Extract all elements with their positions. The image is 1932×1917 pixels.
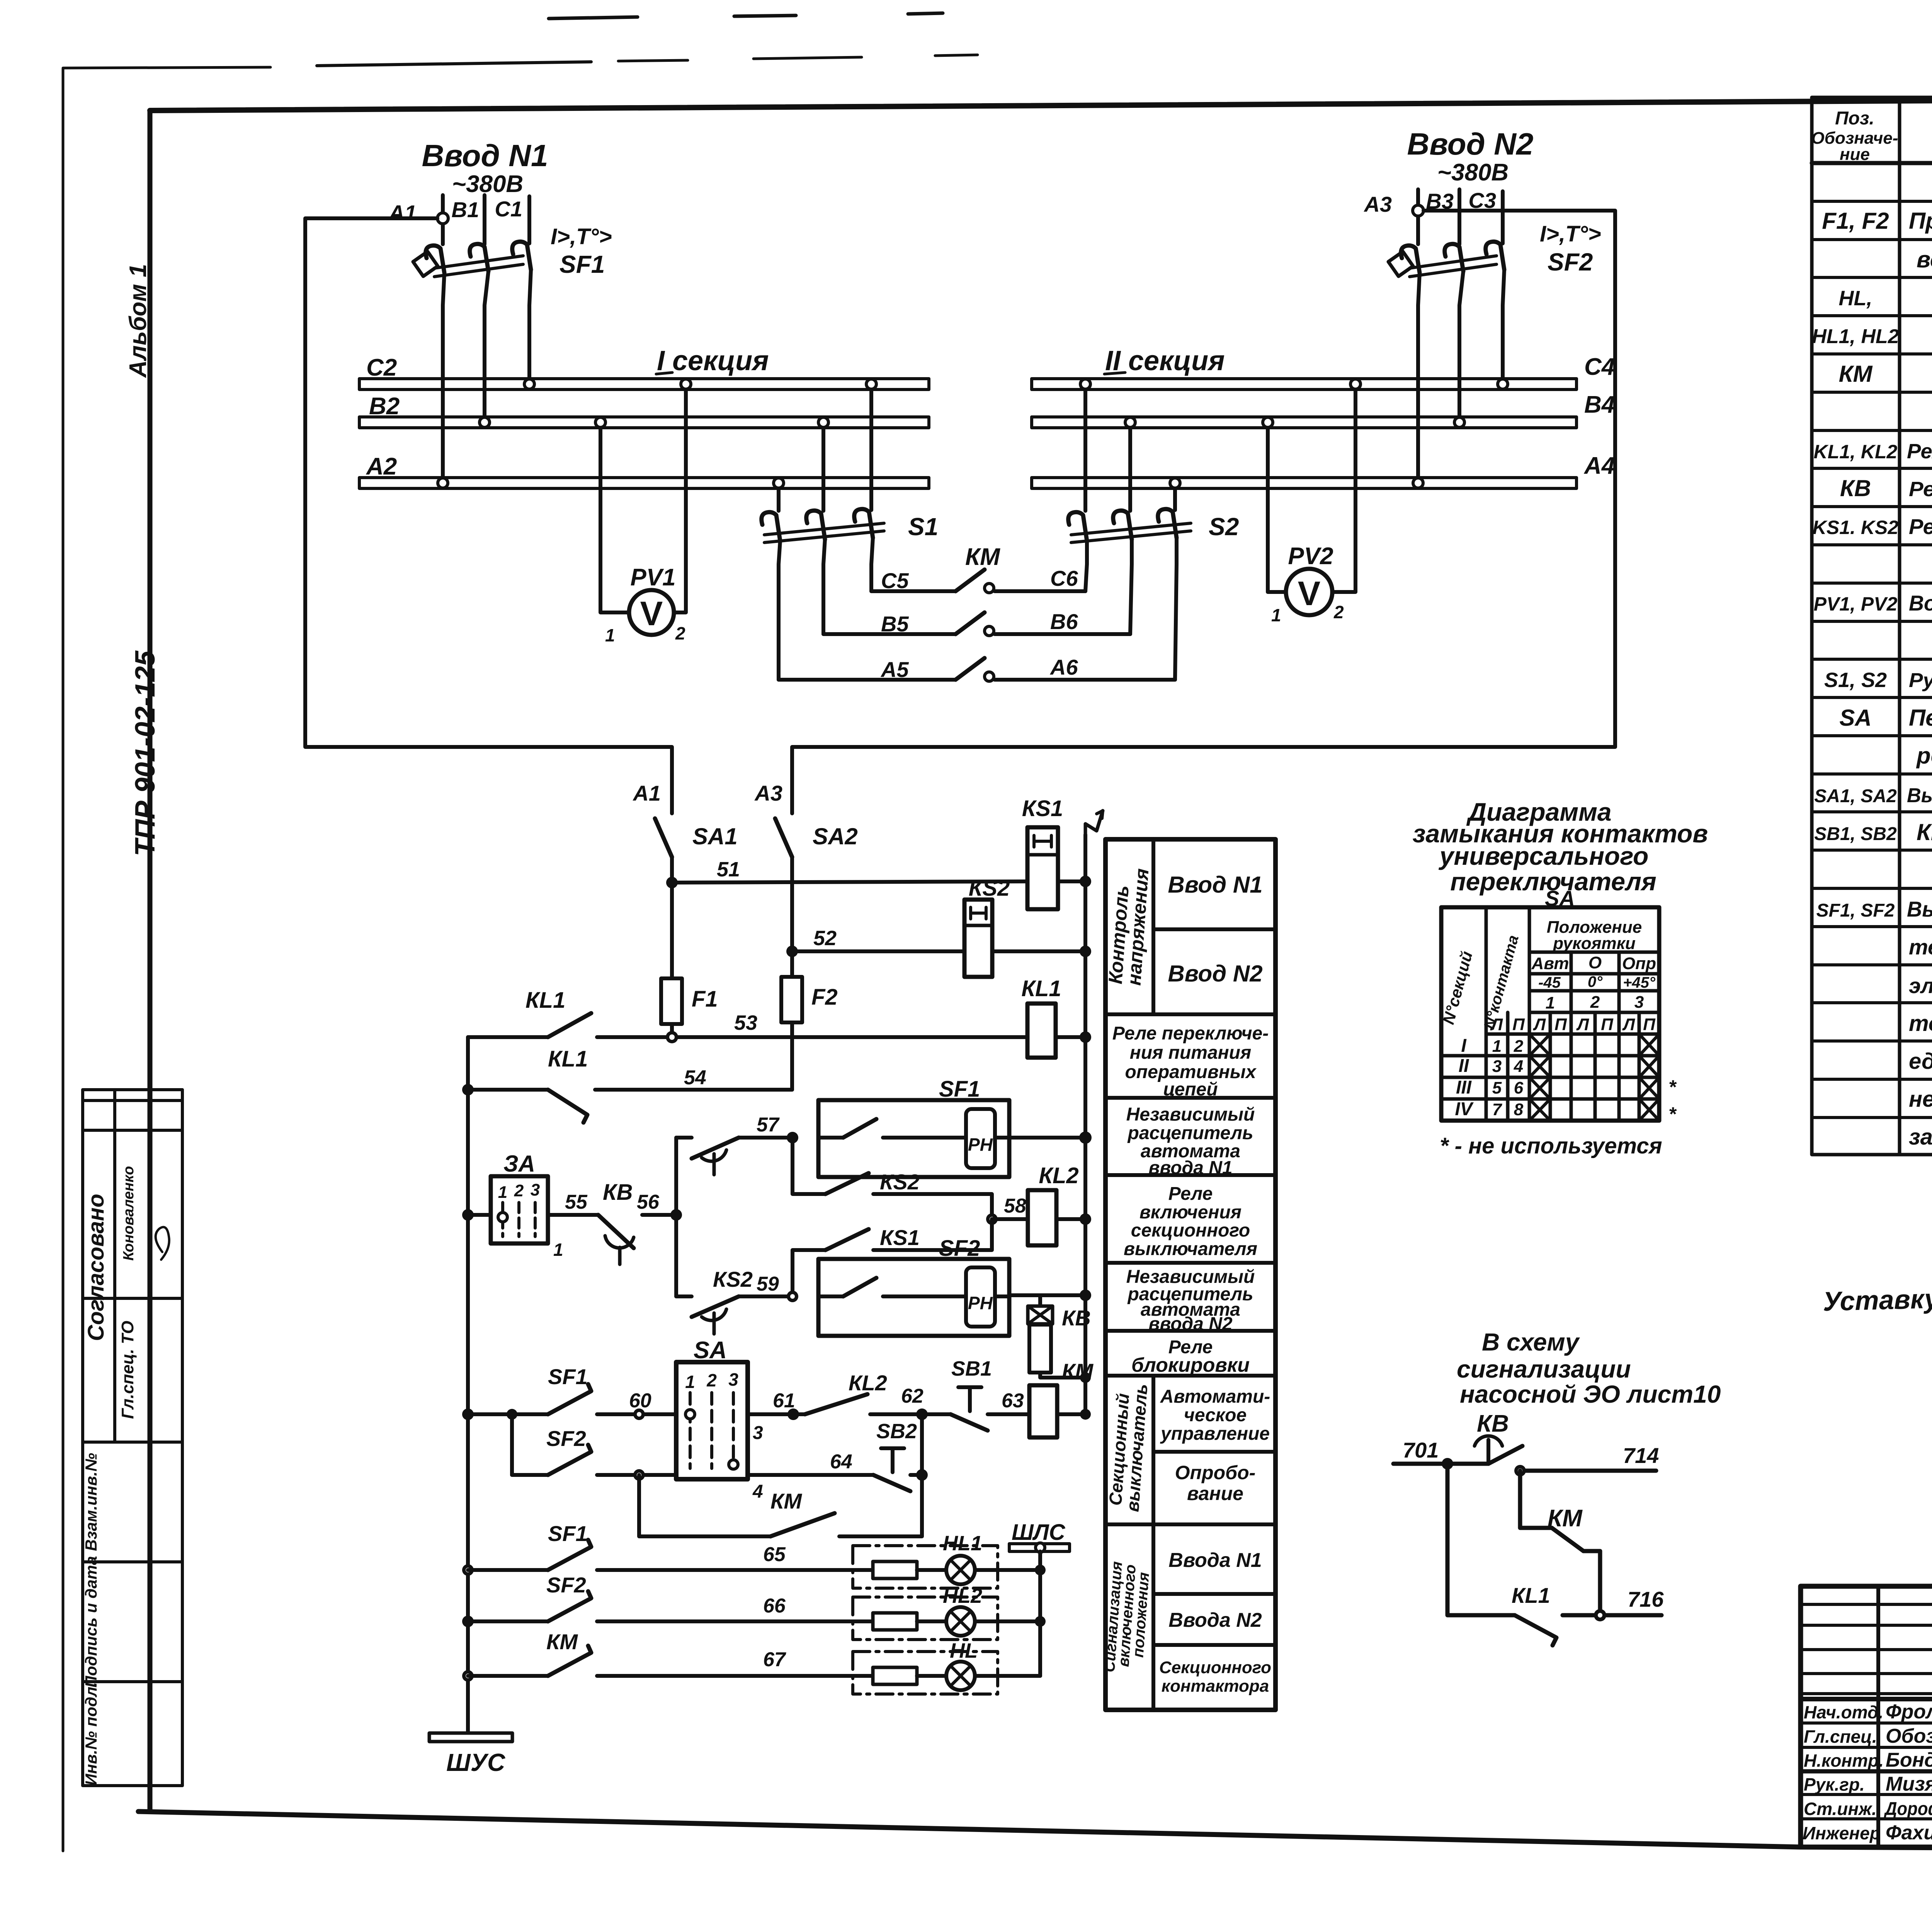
svg-text:единицы по черт. N3 приложе: единицы по черт. N3 приложения N6 к ТУ, (1909, 1049, 1932, 1074)
svg-text:56: 56 (637, 1191, 660, 1213)
node 51 (666, 877, 678, 888)
svg-text:РН: РН (968, 1135, 993, 1155)
verticals (1485, 907, 1488, 1121)
svg-text:701: 701 (1403, 1438, 1439, 1462)
svg-text:61: 61 (773, 1390, 795, 1412)
svg-text:цепей: цепей (1163, 1079, 1218, 1100)
svg-text:Альбом 1: Альбом 1 (125, 264, 151, 378)
svg-text:П: П (1643, 1015, 1656, 1034)
svg-text:А3: А3 (1363, 192, 1392, 216)
left feed rail (466, 1037, 470, 1733)
node 57 (787, 1132, 798, 1143)
svg-text:I секция: I секция (657, 345, 769, 376)
svg-text:* - не используется: * - не используется (1440, 1133, 1662, 1158)
svg-text:S1, S2: S1, S2 (1824, 668, 1887, 692)
node 59 (787, 1291, 798, 1302)
svg-text:Ввод N1: Ввод N1 (1168, 872, 1262, 898)
svg-text:зажимные колодки N16 ТУ 16.: зажимные колодки N16 ТУ 16.522.028 -74 (1909, 1124, 1932, 1150)
svg-text:КМ: КМ (965, 544, 1000, 570)
svg-text:С6: С6 (1050, 566, 1078, 590)
bus taps section I (524, 379, 534, 389)
svg-text:ческое: ческое (1184, 1405, 1247, 1425)
wire 714 (1520, 1469, 1656, 1473)
svg-text:Дорофеев: Дорофеев (1883, 1799, 1932, 1819)
svg-text:3: 3 (531, 1180, 540, 1199)
X marks (1529, 1034, 1659, 1121)
rail 56 (674, 1138, 678, 1296)
svg-text:8: 8 (1514, 1100, 1524, 1119)
svg-text:Кнопка КЕ011УЗ , исп.2 , штиф: Кнопка КЕ011УЗ , исп.2 , штифт красный (1917, 819, 1932, 845)
svg-text:расцепитель: расцепитель (1127, 1123, 1253, 1143)
svg-text:КL1: КL1 (1021, 976, 1061, 1001)
svg-text:Реле ВЛ-26У4, 220В, 50Гц. ТУ: Реле ВЛ-26У4, 220В, 50Гц. ТУ 16.523. 528… (1909, 478, 1932, 501)
svg-text:Рук.гр.: Рук.гр. (1804, 1774, 1865, 1795)
svg-text:III: III (1456, 1077, 1472, 1098)
svg-text:I˃,T°˃: I˃,T°˃ (1540, 221, 1601, 247)
svg-text:КS1: КS1 (1022, 796, 1063, 821)
bus B4 section II (1032, 417, 1577, 428)
svg-text:55: 55 (565, 1191, 588, 1213)
svg-text:С2: С2 (366, 354, 397, 381)
svg-text:насосной ЭО лист10: насосной ЭО лист10 (1460, 1380, 1721, 1408)
svg-text:6: 6 (1514, 1078, 1524, 1097)
svg-text:2: 2 (675, 623, 685, 643)
svg-text:В6: В6 (1050, 609, 1078, 634)
svg-text:секционного: секционного (1131, 1220, 1250, 1241)
node 58 (986, 1213, 998, 1225)
svg-text:универсального: универсального (1439, 842, 1649, 870)
signal lamp row 67 (462, 1670, 474, 1682)
svg-text:Коноваленко: Коноваленко (121, 1166, 137, 1260)
KM self-hold bypass (639, 1475, 770, 1536)
svg-text:ШЛС: ШЛС (1012, 1520, 1066, 1545)
svg-text:Независимый: Независимый (1126, 1104, 1255, 1125)
svg-text:КМ: КМ (546, 1630, 578, 1654)
phase B3 wire (1458, 189, 1461, 244)
row 64: testing (510, 1414, 514, 1475)
node 52 (786, 946, 798, 957)
svg-text:ние: ние (1840, 145, 1870, 164)
svg-text:Ввод N2: Ввод N2 (1407, 127, 1534, 161)
svg-text:П: П (1554, 1015, 1567, 1034)
svg-text:63: 63 (1002, 1390, 1024, 1412)
svg-text:66: 66 (763, 1595, 786, 1617)
phase A3 wire (1416, 189, 1420, 244)
svg-text:П: П (1601, 1015, 1614, 1034)
voltmeter PV1 (600, 390, 686, 645)
svg-text:Ст.инж.: Ст.инж. (1804, 1799, 1877, 1819)
branch 57 to KS2 contact (793, 1138, 825, 1194)
wire 52 (792, 949, 964, 953)
wire A3 to right loop (792, 211, 1615, 813)
svg-text:Переключатель УП5313 -С86, р: Переключатель УП5313 -С86, рукоятка (1909, 705, 1932, 731)
svg-text:PV1, PV2: PV1, PV2 (1814, 593, 1898, 615)
node A3 terminal (1413, 205, 1423, 216)
breaker SF2 (1388, 242, 1504, 277)
svg-text:Поз.: Поз. (1835, 108, 1874, 129)
svg-text:IV: IV (1455, 1099, 1474, 1119)
A5/A6 row (779, 678, 956, 682)
bus C2 section I (359, 379, 929, 390)
svg-text:КL1: КL1 (548, 1046, 588, 1072)
contact KS2 time-delay (row 59) (676, 1294, 692, 1298)
svg-text:57: 57 (757, 1114, 780, 1136)
node 61 (787, 1408, 799, 1420)
box SF2 with PH relay (row 59) (818, 1236, 1009, 1336)
svg-text:~380В: ~380В (452, 171, 523, 197)
lamp HL2 (943, 1584, 982, 1636)
svg-text:ШУС: ШУС (446, 1749, 505, 1776)
svg-text:64: 64 (830, 1451, 852, 1473)
svg-text:электромагнитный расцепитель: электромагнитный расцепитель и уставка (1909, 973, 1932, 998)
node 56 (670, 1209, 682, 1221)
svg-text:V: V (1298, 574, 1321, 612)
svg-text:Ввода N2: Ввода N2 (1168, 1609, 1262, 1631)
svg-text:2: 2 (1514, 1037, 1524, 1056)
box SF1 with PH relay (row 57) (818, 1077, 1009, 1177)
svg-text:О: О (1588, 953, 1602, 972)
svg-text:HL1, HL2: HL1, HL2 (1812, 325, 1899, 348)
svg-text:SF2: SF2 (546, 1426, 586, 1451)
svg-text:А6: А6 (1049, 655, 1078, 679)
svg-text:SA: SA (1839, 705, 1871, 731)
svg-text:А1: А1 (388, 201, 417, 225)
svg-text:54: 54 (684, 1067, 706, 1089)
contact KS1 time-delay (row 57) (676, 1136, 692, 1140)
svg-text:Л: Л (1576, 1015, 1589, 1034)
node 54 (462, 1084, 474, 1095)
svg-text:Мизяк: Мизяк (1886, 1773, 1932, 1795)
svg-text:53: 53 (734, 1011, 757, 1034)
svg-text:С5: С5 (881, 568, 909, 593)
svg-text:Выключатель А372 6ФУЗ , 380В: Выключатель А372 6ФУЗ , 380В , 50 Гц,250… (1907, 897, 1932, 921)
wire A1 to left loop (305, 218, 672, 813)
svg-text:Предохранитель ПРС-20УЗ-П, пл: Предохранитель ПРС-20УЗ-П, плавкая (1909, 208, 1932, 234)
svg-text:-45: -45 (1538, 974, 1561, 991)
svg-text:PV2: PV2 (1288, 543, 1333, 570)
svg-text:V: V (640, 594, 663, 633)
svg-text:1: 1 (1492, 1037, 1502, 1056)
button SB1 (951, 1357, 992, 1431)
svg-text:блокировки: блокировки (1131, 1354, 1250, 1376)
node 53 (666, 1031, 678, 1043)
svg-text:60: 60 (629, 1390, 651, 1412)
voltmeter PV2 (1268, 390, 1355, 625)
svg-text:ЗА: ЗА (503, 1151, 535, 1177)
svg-text:3: 3 (1634, 993, 1644, 1012)
svg-text:Бондарь: Бондарь (1886, 1749, 1932, 1771)
svg-text:А4: А4 (1583, 452, 1615, 479)
svg-text:КМ: КМ (770, 1489, 802, 1513)
contact KB time-delay (598, 1180, 634, 1264)
svg-text:SF1: SF1 (548, 1364, 588, 1389)
svg-text:Согласовано: Согласовано (83, 1194, 109, 1341)
svg-text:Ввода N1: Ввода N1 (1168, 1549, 1262, 1572)
svg-text:НL1: НL1 (943, 1532, 982, 1555)
svg-text:5: 5 (1492, 1078, 1502, 1097)
switch SA2 (775, 818, 792, 857)
relay coil KS1 (1022, 796, 1063, 909)
svg-text:Опробо-: Опробо- (1175, 1462, 1256, 1483)
selector ZA (1 2 3) (462, 1209, 474, 1221)
svg-text:Фролов: Фролов (1886, 1701, 1932, 1723)
svg-text:7: 7 (1492, 1100, 1503, 1119)
svg-text:SF2: SF2 (546, 1573, 586, 1597)
svg-text:С1: С1 (495, 197, 522, 221)
svg-text:1: 1 (498, 1183, 507, 1202)
function annotation table (1101, 839, 1276, 1710)
B5/B6 row (823, 632, 956, 636)
relay coil KB (1028, 1295, 1091, 1383)
svg-text:Нач.отд.: Нач.отд. (1804, 1702, 1883, 1722)
svg-text:Реле: Реле (1168, 1184, 1213, 1204)
svg-text:Подпись и дата: Подпись и дата (82, 1556, 100, 1687)
contact KL2 (805, 1394, 867, 1414)
svg-text:SF1, SF2: SF1, SF2 (1816, 900, 1895, 921)
svg-text:сигнализации: сигнализации (1457, 1355, 1631, 1383)
phase A1 wire (441, 195, 445, 244)
left margin stamp (82, 1090, 182, 1786)
svg-text:SA1, SA2: SA1, SA2 (1814, 786, 1897, 806)
svg-text:Реле РПУ-4-368, 220В, 50 Гц ,: Реле РПУ-4-368, 220В, 50 Гц , ТУ16.523.5… (1907, 440, 1932, 463)
note to signalling circuit (1393, 1328, 1721, 1645)
svg-text:3: 3 (1492, 1057, 1502, 1076)
svg-text:В4: В4 (1584, 391, 1615, 418)
svg-text:1: 1 (1271, 605, 1281, 625)
svg-text:револьверного типа , ТУ 16.524: револьверного типа , ТУ 16.524. 074-75 (1916, 743, 1932, 769)
svg-text:0°: 0° (1588, 973, 1603, 990)
svg-text:вание: вание (1187, 1483, 1243, 1504)
svg-text:В2: В2 (369, 393, 400, 420)
svg-text:4: 4 (1514, 1057, 1523, 1076)
svg-text:*: * (1668, 1103, 1677, 1125)
svg-text:КS2: КS2 (880, 1170, 920, 1194)
svg-text:вставка ПВД 1-16УЗ , ТУ 16.52: вставка ПВД 1-16УЗ , ТУ 16.522.011-74 (1917, 247, 1932, 272)
breaker SF1 (413, 242, 531, 277)
svg-text:КS2: КS2 (713, 1267, 753, 1291)
relay coil KL2 (992, 1217, 1028, 1221)
bus C4 section II (1032, 379, 1577, 390)
svg-text:2: 2 (1590, 993, 1600, 1012)
wires SF1 to buses (443, 273, 444, 478)
svg-text:4: 4 (752, 1482, 763, 1502)
svg-text:В5: В5 (881, 612, 909, 636)
svg-text:67: 67 (763, 1648, 786, 1671)
svg-text:Л: Л (1533, 1015, 1546, 1034)
svg-text:59: 59 (757, 1273, 779, 1295)
signal lamp row 66 (462, 1616, 474, 1627)
bus taps section II (1080, 379, 1090, 389)
svg-text:контактора: контактора (1162, 1677, 1269, 1696)
svg-text:SF2: SF2 (1548, 248, 1593, 276)
svg-text:F1, F2: F1, F2 (1822, 208, 1889, 234)
horizontals (1529, 951, 1659, 954)
svg-text:Обозная: Обозная (1886, 1725, 1932, 1747)
node 62 (916, 1408, 928, 1420)
C5/C6 row (871, 589, 956, 593)
svg-text:управление: управление (1160, 1424, 1270, 1444)
svg-text:Инженер: Инженер (1803, 1823, 1881, 1843)
resistor (lamp row 67) (873, 1667, 917, 1684)
svg-text:SF1: SF1 (560, 250, 605, 278)
svg-text:КL1: КL1 (526, 988, 565, 1013)
selector SA box (676, 1337, 748, 1479)
wire 51 (672, 881, 1027, 883)
svg-text:58: 58 (1004, 1195, 1026, 1217)
input N2 label (1363, 127, 1601, 276)
svg-text:PV1: PV1 (630, 564, 675, 591)
contact SF1 (548, 1384, 591, 1414)
wire (670, 857, 674, 883)
switch S2 (1068, 509, 1239, 543)
resistor (lamp row 66) (873, 1613, 917, 1630)
svg-text:S1: S1 (908, 513, 938, 541)
contact SF2 (548, 1445, 591, 1475)
svg-text:независимый расцепитель 220В: независимый расцепитель 220В, 50 Гц, (1909, 1087, 1932, 1112)
node 60 (633, 1408, 645, 1420)
svg-text:1: 1 (685, 1372, 695, 1392)
svg-text:714: 714 (1623, 1443, 1659, 1468)
svg-text:рукоятки: рукоятки (1553, 934, 1636, 953)
svg-text:В1: В1 (451, 197, 479, 222)
SA contact closure diagram (1413, 798, 1708, 1158)
svg-text:В схему: В схему (1482, 1328, 1580, 1356)
lamp HL1 (943, 1532, 982, 1584)
svg-text:КL1: КL1 (1512, 1583, 1550, 1607)
svg-text:А1: А1 (632, 781, 661, 805)
svg-text:ввода N2: ввода N2 (1148, 1314, 1232, 1334)
svg-text:Ввод N1: Ввод N1 (422, 138, 548, 173)
svg-text:Реле переключе-: Реле переключе- (1112, 1023, 1269, 1044)
relay coil KS2 (964, 876, 1010, 977)
svg-text:ТПР 901-02-125: ТПР 901-02-125 (130, 650, 161, 856)
svg-text:F1: F1 (692, 987, 718, 1012)
svg-text:SА: SА (694, 1337, 727, 1364)
bus SHUS (ground bar) (429, 1733, 512, 1776)
svg-text:Автомати-: Автомати- (1160, 1386, 1270, 1407)
fuse F1 (670, 883, 674, 978)
svg-text:*: * (1668, 1076, 1677, 1098)
svg-text:А2: А2 (366, 453, 397, 480)
wire 53 with contact KL1 (468, 1035, 548, 1039)
wire 716 with contact KL1 (1447, 1464, 1515, 1615)
svg-text:Инв.№ подл.: Инв.№ подл. (82, 1682, 100, 1785)
fuse F2 (790, 951, 794, 977)
svg-text:НL: НL (950, 1639, 978, 1662)
svg-text:SF1: SF1 (939, 1077, 980, 1102)
svg-text:S2: S2 (1209, 513, 1239, 541)
svg-text:51: 51 (717, 858, 740, 881)
lamp HL (946, 1639, 978, 1690)
svg-text:+45°: +45° (1623, 974, 1656, 991)
bus SHLS (1009, 1520, 1070, 1676)
svg-text:~380В: ~380В (1437, 159, 1509, 186)
button SB2 (873, 1420, 917, 1491)
svg-text:С4: С4 (1584, 354, 1615, 380)
svg-text:Н.контр.: Н.контр. (1804, 1750, 1884, 1771)
left margin vertical texts (125, 264, 161, 856)
svg-text:I: I (1461, 1036, 1467, 1056)
svg-text:Взам.инв.№: Взам.инв.№ (82, 1453, 100, 1551)
svg-text:Фахина: Фахина (1886, 1822, 1932, 1844)
svg-text:Опр: Опр (1622, 954, 1656, 973)
svg-text:F2: F2 (811, 985, 838, 1010)
svg-text:HL,: HL, (1839, 287, 1872, 310)
switch S1 (762, 390, 939, 543)
svg-text:А3: А3 (754, 781, 782, 805)
svg-text:КВ: КВ (603, 1180, 633, 1205)
svg-text:Гл.спец.: Гл.спец. (1804, 1726, 1877, 1747)
switch SA1 (655, 818, 672, 857)
svg-text:SF2: SF2 (939, 1236, 980, 1261)
svg-text:ния питания: ния питания (1130, 1043, 1252, 1063)
svg-text:2: 2 (514, 1181, 524, 1200)
svg-text:термобиметаллический расцепите: термобиметаллический расцепитель 230А (1909, 935, 1932, 959)
svg-text:Авт: Авт (1531, 954, 1569, 973)
svg-text:SВ1: SВ1 (951, 1357, 992, 1380)
svg-text:Гл.спец. ТО: Гл.спец. ТО (118, 1321, 137, 1419)
svg-text:2: 2 (1333, 602, 1344, 622)
svg-text:SF1: SF1 (548, 1521, 588, 1546)
svg-text:Ввод N2: Ввод N2 (1168, 961, 1262, 987)
svg-text:II: II (1459, 1056, 1469, 1076)
svg-text:КS2: КS2 (969, 876, 1010, 901)
phase C1 wire (527, 196, 531, 243)
svg-text:ввода N1: ввода N1 (1148, 1158, 1232, 1178)
svg-text:65: 65 (763, 1543, 786, 1566)
svg-text:62: 62 (901, 1385, 923, 1407)
bus A2 section I (359, 478, 929, 488)
contactor KM power contacts (779, 538, 1177, 682)
svg-text:2: 2 (706, 1370, 717, 1390)
svg-text:SВ2: SВ2 (876, 1420, 917, 1443)
svg-text:I˃,T°˃: I˃,T°˃ (551, 224, 612, 249)
node A1 terminal (437, 213, 448, 224)
svg-text:1: 1 (605, 625, 615, 645)
input N1 label (388, 138, 612, 278)
svg-text:Л: Л (1622, 1015, 1635, 1034)
svg-text:А5: А5 (880, 657, 909, 682)
svg-text:КL2: КL2 (1039, 1163, 1078, 1188)
sheet outer edge marks (63, 13, 978, 1851)
svg-text:3: 3 (728, 1369, 738, 1390)
svg-text:РН: РН (968, 1293, 993, 1313)
svg-text:Выключатель ПВ2-10, исп.1 О: Выключатель ПВ2-10, исп.1 ОСТ 16.0526.00… (1907, 784, 1932, 807)
svg-text:SA2: SA2 (813, 823, 858, 849)
row 60: automatic control (462, 1408, 474, 1420)
branch 59 to KS1 contact (793, 1250, 825, 1296)
svg-text:716: 716 (1628, 1587, 1664, 1611)
svg-text:выключателя: выключателя (1124, 1239, 1257, 1259)
svg-text:KS1. KS2: KS1. KS2 (1813, 517, 1899, 538)
svg-text:Вольтметр Э377, предел измер: Вольтметр Э377, предел измерения 0-500В (1909, 591, 1932, 615)
svg-text:3: 3 (753, 1423, 763, 1443)
svg-text:КВ: КВ (1840, 475, 1871, 501)
svg-text:Реле РВП72-3222-00У4 ,~220В,: Реле РВП72-3222-00У4 ,~220В, 50Гц (1909, 514, 1932, 539)
svg-text:НL2: НL2 (943, 1584, 982, 1607)
resistor (lamp row 65) (873, 1561, 917, 1579)
N rail (1083, 835, 1087, 1414)
svg-text:SA1: SA1 (692, 823, 738, 849)
svg-text:SB1, SB2: SB1, SB2 (1814, 824, 1897, 844)
svg-text:П: П (1512, 1015, 1525, 1034)
phase B1 wire (483, 195, 486, 244)
svg-text:КМ: КМ (1839, 361, 1873, 387)
svg-text:КВ: КВ (1477, 1410, 1509, 1437)
title block (1801, 1586, 1932, 1913)
contactor coil KM (1029, 1385, 1057, 1437)
svg-text:КS1: КS1 (880, 1225, 920, 1250)
